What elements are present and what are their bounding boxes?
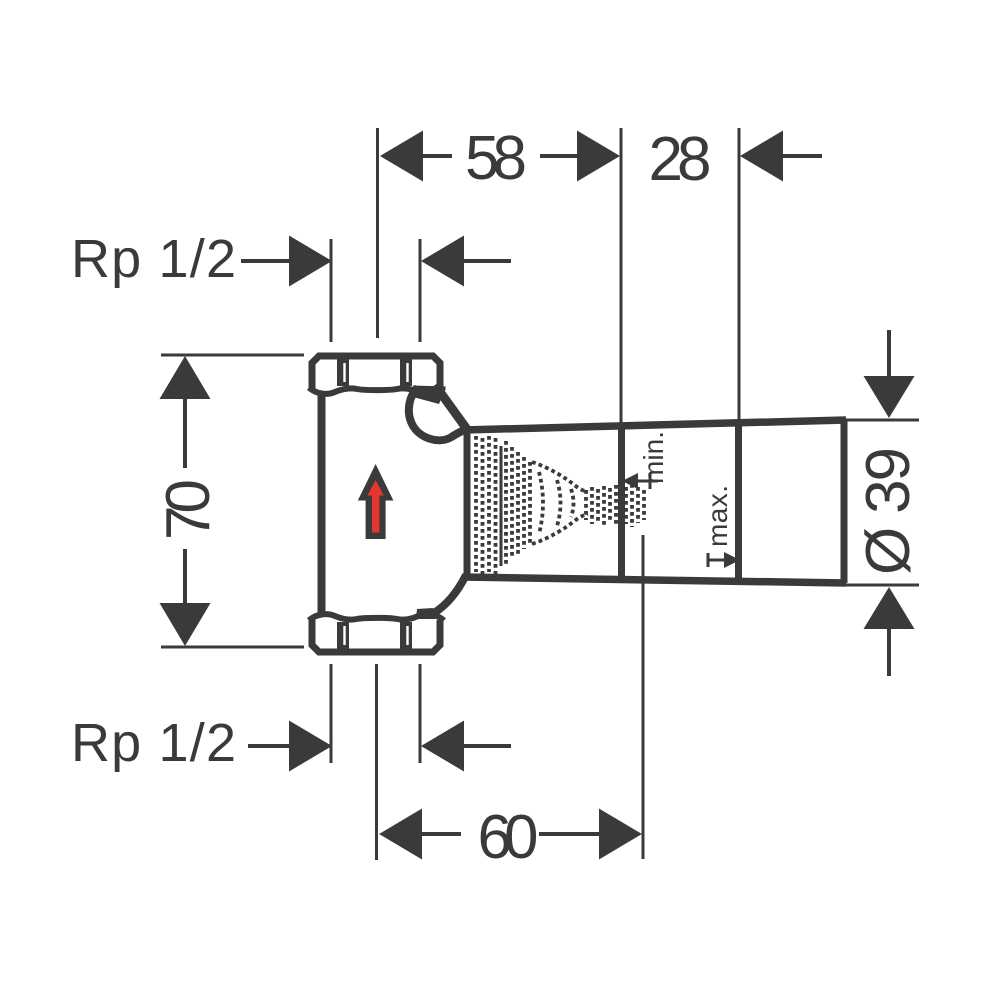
valve body white fill — [310, 354, 467, 616]
spindle halftone dense block — [476, 436, 496, 574]
dimension 39 bottom tick — [846, 584, 919, 587]
spindle halftone horn lower edge — [532, 514, 588, 544]
dimension 58 right arrowhead — [577, 131, 620, 182]
spindle halftone horn upper edge — [532, 462, 588, 492]
cone top edge — [463, 420, 846, 430]
cone left wall — [464, 428, 471, 579]
leader arrowhead Rp 1/2 top — [289, 236, 332, 287]
valve body left wall — [318, 391, 326, 617]
lower transition fillet — [434, 575, 466, 613]
dimension 70 top tick — [161, 354, 304, 357]
svg-text:Rp 1/2: Rp 1/2 — [71, 713, 236, 773]
leader tick max — [707, 553, 710, 567]
spindle halftone inner arc 3 — [571, 489, 574, 517]
svg-text:60: 60 — [478, 803, 539, 872]
svg-text:28: 28 — [649, 125, 712, 194]
dimension 70 label — [154, 479, 223, 540]
flow direction arrow red fill — [367, 480, 383, 533]
spindle halftone taper columns — [506, 441, 530, 566]
dimension 28 tail line — [783, 154, 822, 158]
cone end cap — [841, 420, 848, 583]
opposing arrow tail bottom thread — [464, 744, 511, 748]
divider at max depth — [735, 421, 742, 582]
label min — [638, 431, 669, 484]
leader arrowhead Rp 1/2 bottom — [289, 721, 332, 772]
dimension 39 down arrowhead — [864, 376, 915, 418]
dimension 58 label — [465, 124, 527, 193]
label max — [702, 485, 733, 547]
dimension 58 left arrowhead — [380, 131, 423, 182]
svg-text:min.: min. — [638, 431, 669, 484]
dimension 39 upper line — [887, 330, 891, 377]
leader tick min — [649, 473, 652, 489]
dimension 58 line right segment — [540, 154, 578, 158]
dimension 28 arrowhead — [740, 131, 783, 182]
dimension 70 bottom tick — [161, 646, 304, 649]
leader line min — [635, 480, 658, 483]
dimension 39 label — [854, 447, 923, 575]
dimension 58 line left segment — [423, 154, 452, 158]
upper transition diagonal — [435, 385, 468, 430]
svg-text:max.: max. — [702, 485, 733, 547]
svg-text:Ø 39: Ø 39 — [854, 447, 923, 575]
extension line at cartridge min plane — [620, 128, 623, 424]
dimension 60 line left segment — [422, 832, 461, 836]
opposing arrowhead bottom thread — [421, 721, 464, 772]
dimension 60 left arrowhead — [379, 809, 422, 860]
top hex nut — [308, 352, 444, 394]
leader arrowhead max — [724, 552, 740, 568]
leader line max — [708, 559, 726, 562]
svg-text:Rp 1/2: Rp 1/2 — [71, 229, 236, 289]
leader arrowhead min — [622, 473, 638, 489]
dimension 39 top tick — [846, 419, 919, 422]
flow direction arrow outline — [358, 464, 394, 539]
cone bottom edge — [463, 577, 846, 583]
svg-text:70: 70 — [154, 479, 223, 540]
opposing arrow tail top thread — [464, 259, 511, 263]
dimension 39 lower line — [887, 629, 891, 676]
divider at min depth — [618, 423, 625, 580]
spindle halftone inner arc 2 — [557, 480, 561, 526]
svg-text:58: 58 — [465, 124, 527, 193]
dimension 70 line upper segment — [183, 399, 187, 468]
spindle solid line — [500, 446, 503, 566]
dimension 60 label — [478, 803, 539, 872]
spindle halftone inner arc 1 — [539, 472, 543, 534]
extension line bottom thread right — [419, 664, 422, 763]
dimension 70 line lower segment — [183, 549, 187, 603]
leader line Rp 1/2 top — [241, 259, 291, 263]
spindle halftone stem cluster — [586, 484, 644, 527]
lower transition step — [416, 608, 436, 619]
extension line top thread left — [330, 239, 333, 342]
dimension 70 up arrowhead — [160, 356, 211, 399]
extension line body centerline top — [376, 128, 379, 338]
dimension 39 up arrowhead — [864, 587, 915, 629]
label Rp 1/2 top — [71, 229, 236, 289]
extension line bottom thread left — [330, 664, 333, 763]
opposing arrowhead top thread — [421, 236, 464, 287]
extension line cone center — [642, 535, 645, 859]
leader line Rp 1/2 bottom — [248, 744, 291, 748]
dimension 60 right arrowhead — [599, 809, 642, 860]
side outlet loop arc — [409, 388, 466, 440]
extension line top thread right — [419, 239, 422, 342]
cone section white fill — [464, 420, 845, 583]
dimension 60 line right segment — [539, 832, 599, 836]
label Rp 1/2 bottom — [71, 713, 236, 773]
dimension 28 label — [649, 125, 712, 194]
extension line body centerline bottom — [375, 664, 378, 860]
upper transition junction blob — [413, 386, 446, 405]
dimension 70 down arrowhead — [160, 603, 211, 646]
extension line at cartridge max plane — [738, 128, 741, 420]
bottom hex nut — [308, 614, 444, 656]
